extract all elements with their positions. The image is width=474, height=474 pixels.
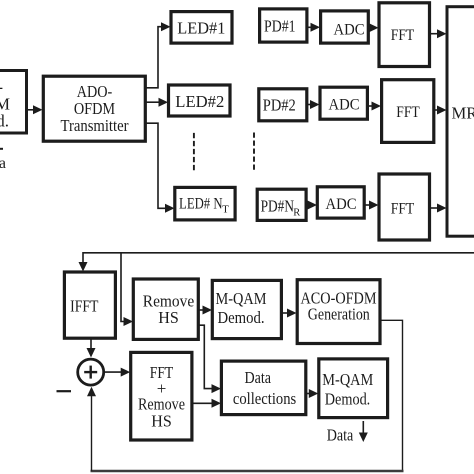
svg-text:PD#1: PD#1 — [264, 17, 296, 36]
label Data (output) with down arrow — [327, 421, 368, 445]
wire: PD#2 to ADC — [307, 100, 320, 109]
svg-text:LED# N: LED# N — [179, 195, 223, 212]
box FFT (row 1) — [379, 3, 430, 67]
svg-text:ADC: ADC — [334, 22, 365, 39]
svg-text:Mod.: Mod. — [0, 112, 9, 131]
svg-text:R: R — [293, 207, 300, 218]
wire: FFT to MRC (row 2) — [434, 106, 447, 115]
box ACO-OFDM Generation — [297, 280, 380, 344]
wire: Remove HS lower output down to Data collections — [198, 325, 221, 393]
wire: M-QAM Demod to ACO-OFDM Generation — [281, 309, 296, 318]
wire: Transmitter to LED#1 — [145, 22, 170, 88]
box LED#NT — [175, 187, 235, 220]
wire: M-QAM Mod. to Transmitter — [27, 105, 43, 114]
wire: ACO-OFDM Generation feedback to adder (right, down, bottom, up) — [87, 320, 404, 471]
svg-text:LED#1: LED#1 — [177, 18, 225, 37]
box ADC (row 3) — [317, 187, 364, 218]
wire: FFT to MRC (row 3) — [430, 204, 447, 213]
svg-text:Data: Data — [327, 426, 354, 445]
svg-text:ADC: ADC — [329, 97, 360, 114]
wire: PD#NR to ADC — [306, 201, 317, 210]
svg-text:T: T — [222, 204, 229, 216]
wire: ADC to FFT (row 1) — [368, 23, 378, 32]
wire: feedback branch down to Remove HS — [121, 253, 133, 326]
adder (summing junction) — [78, 359, 104, 385]
wire: FFT to MRC (row 1) — [430, 29, 447, 38]
box M-QAM Mod. (cut off at left edge) — [0, 71, 27, 134]
minus sign at adder — [57, 390, 72, 392]
box IFFT — [64, 272, 115, 338]
wire: Transmitter to LED#NT — [145, 123, 174, 213]
svg-text:MRC: MRC — [452, 104, 474, 123]
box MRC (cut off at right edge) — [447, 7, 474, 237]
wire: FFT + Remove HS to Data collections — [192, 399, 221, 408]
box M-QAM Demod (upper) — [212, 280, 281, 338]
wire: IFFT to adder — [87, 338, 96, 357]
box ADC (row 2) — [320, 87, 367, 119]
svg-text:HS: HS — [158, 308, 179, 327]
svg-text:Data: Data — [0, 155, 6, 172]
svg-text:PD#N: PD#N — [261, 197, 294, 216]
box ADC (row 1) — [321, 11, 369, 43]
wire: feedback from MRC to IFFT (top horizontal) — [79, 253, 474, 272]
svg-text:PD#2: PD#2 — [263, 95, 296, 114]
svg-text:HS: HS — [151, 412, 172, 431]
box PD#1 — [260, 9, 307, 42]
wire: PD#1 to ADC — [307, 23, 320, 32]
svg-text:LED#2: LED#2 — [175, 92, 224, 111]
box FFT (row 2) — [382, 80, 434, 143]
box M-QAM Demod (lower) — [319, 359, 388, 418]
svg-text:FFT: FFT — [396, 104, 420, 121]
svg-text:Demod.: Demod. — [218, 308, 265, 327]
wire: Transmitter to LED#2 — [145, 98, 168, 107]
box LED#2 — [169, 85, 231, 116]
svg-text:Transmitter: Transmitter — [61, 116, 129, 135]
box LED#1 — [171, 12, 232, 43]
wire: ADC to FFT (row 3) — [364, 201, 378, 210]
dashed line between LED#2 and LED#NT — [193, 133, 195, 170]
box FFT + Remove HS — [131, 352, 192, 440]
svg-text:Demod.: Demod. — [325, 389, 371, 408]
svg-text:collections: collections — [233, 389, 296, 408]
wire: Remove HS to M-QAM Demod — [198, 306, 212, 315]
box PD#2 — [259, 89, 307, 121]
label Data (input, cut off at left edge) — [0, 149, 6, 172]
box PD#NR — [257, 189, 306, 220]
box Data collections — [221, 361, 305, 415]
dashed line between PD#2 and PD#NR — [253, 133, 255, 171]
svg-text:Generation: Generation — [308, 305, 370, 324]
svg-text:ADC: ADC — [326, 196, 357, 213]
box ADO-OFDM Transmitter — [43, 76, 145, 141]
svg-text:M-QAM: M-QAM — [216, 289, 267, 308]
wire: ADC to FFT (row 2) — [367, 102, 381, 111]
box FFT (row 3) — [379, 174, 430, 240]
svg-text:Data: Data — [245, 368, 272, 387]
wire: adder to FFT+Remove HS — [104, 368, 130, 377]
svg-text:M-QAM: M-QAM — [322, 370, 373, 389]
box Remove HS — [133, 279, 198, 339]
svg-text:FFT: FFT — [391, 27, 415, 44]
svg-text:FFT: FFT — [391, 200, 415, 217]
wire: Data collections to M-QAM Demod (lower) — [306, 389, 319, 398]
svg-text:IFFT: IFFT — [70, 297, 99, 316]
